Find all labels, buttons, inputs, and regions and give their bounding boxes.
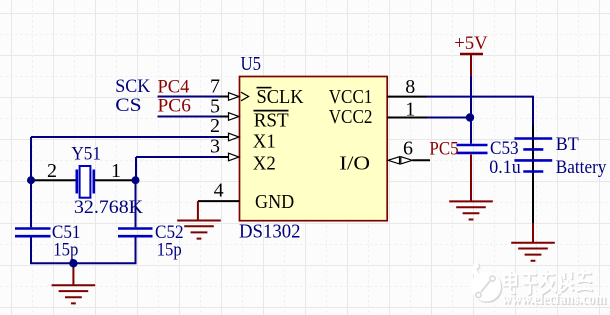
svg-text:U5: U5 [241, 53, 262, 75]
svg-text:PC6: PC6 [158, 96, 191, 117]
svg-text:CS: CS [115, 95, 141, 116]
svg-text:15p: 15p [53, 240, 78, 261]
svg-text:15p: 15p [157, 240, 182, 261]
svg-text:3: 3 [210, 135, 220, 157]
svg-text:0.1u: 0.1u [489, 157, 521, 178]
svg-text:DS1302: DS1302 [239, 221, 301, 243]
svg-text:32.768K: 32.768K [74, 197, 143, 218]
svg-text:GND: GND [255, 191, 294, 213]
svg-text:RST: RST [254, 109, 289, 131]
svg-text:2: 2 [210, 115, 220, 137]
svg-text:2: 2 [47, 160, 57, 182]
svg-text:Battery: Battery [556, 157, 607, 178]
svg-text:1: 1 [111, 160, 121, 182]
svg-text:PC5: PC5 [429, 139, 458, 160]
svg-text:PC4: PC4 [158, 77, 190, 98]
svg-text:+5V: +5V [454, 33, 488, 54]
svg-text:VCC2: VCC2 [329, 106, 373, 128]
svg-text:6: 6 [403, 138, 413, 160]
svg-text:4: 4 [214, 180, 224, 202]
svg-text:VCC1: VCC1 [329, 86, 373, 108]
svg-text:1: 1 [405, 99, 415, 121]
svg-text:I/O: I/O [339, 152, 370, 174]
svg-text:X1: X1 [253, 131, 276, 153]
svg-text:8: 8 [405, 76, 415, 98]
svg-text:www.elecfans.com: www.elecfans.com [502, 291, 607, 308]
svg-text:5: 5 [210, 96, 220, 118]
svg-text:7: 7 [210, 76, 220, 98]
svg-text:C53: C53 [490, 138, 519, 159]
svg-text:BT: BT [556, 134, 579, 155]
svg-text:X2: X2 [253, 152, 276, 174]
svg-text:Y51: Y51 [71, 144, 101, 165]
svg-text:SCK: SCK [115, 76, 150, 97]
svg-text:SCLK: SCLK [257, 86, 305, 108]
